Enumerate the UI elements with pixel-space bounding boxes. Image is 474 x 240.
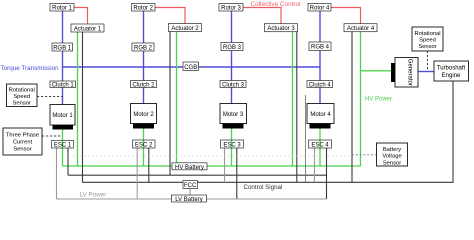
svg-text:Current: Current <box>13 140 33 146</box>
svg-text:Speed: Speed <box>13 94 30 100</box>
wire esc1 hv <box>62 130 64 167</box>
wire actuator1 control <box>82 32 84 182</box>
motor M2 <box>131 104 157 129</box>
wire actuator3 control <box>296 31 298 182</box>
svg-text:HV Battery: HV Battery <box>175 165 204 171</box>
svg-text:Actuator 2: Actuator 2 <box>171 26 199 32</box>
wire rotational speed sensor dashed <box>37 96 63 98</box>
wire collective control rotor2 <box>155 8 186 24</box>
svg-text:Torque Transmission: Torque Transmission <box>1 65 60 72</box>
wire fcc control line <box>83 81 454 182</box>
battery HV <box>172 163 207 171</box>
esc E2 <box>133 140 156 148</box>
svg-text:Sensor: Sensor <box>383 160 401 166</box>
gearbox RGB4 <box>309 42 331 51</box>
wire rotor4 shaft <box>319 11 321 104</box>
svg-text:RGB 1: RGB 1 <box>53 46 72 52</box>
svg-text:FCC: FCC <box>184 183 197 189</box>
svg-text:Rotor 3: Rotor 3 <box>221 6 241 12</box>
wire actuator4 hv <box>360 31 362 166</box>
wire collective control rotor1 <box>74 8 88 25</box>
rotor R3 <box>219 4 243 12</box>
wire actuator3 hv <box>292 31 294 166</box>
svg-text:ESC 1: ESC 1 <box>54 143 72 149</box>
wire battery voltage sensor dashed <box>68 155 352 157</box>
svg-text:ESC 2: ESC 2 <box>135 142 153 148</box>
svg-text:Engine: Engine <box>442 73 461 79</box>
wire esc3 control <box>236 148 238 199</box>
svg-text:ESC 3: ESC 3 <box>223 142 241 148</box>
svg-text:Rotor 2: Rotor 2 <box>133 6 153 12</box>
wire esc4 control <box>326 148 328 199</box>
svg-text:Actuator 4: Actuator 4 <box>347 26 375 32</box>
actuator A2 <box>169 24 202 32</box>
wire hv generator link <box>361 70 392 72</box>
svg-text:Motor 3: Motor 3 <box>223 112 244 118</box>
wire fcc to lv battery <box>189 189 191 196</box>
wire rotor3 shaft <box>231 11 233 104</box>
svg-text:Three Phase: Three Phase <box>6 133 39 139</box>
actuator A1 <box>71 24 104 32</box>
svg-text:CGB: CGB <box>184 65 197 71</box>
svg-text:Speed: Speed <box>419 38 436 44</box>
svg-text:Rotor 4: Rotor 4 <box>310 6 330 12</box>
engine turboshaft <box>434 61 469 81</box>
wire esc1 control <box>67 148 69 175</box>
motor M4 <box>307 104 334 129</box>
esc E3 <box>221 140 244 148</box>
wire lv battery line <box>57 198 327 200</box>
rotor R1 <box>50 4 74 12</box>
wire esc3 hv <box>231 129 233 167</box>
wire lv esc1 <box>56 148 58 199</box>
battery LV <box>172 195 207 203</box>
wire collective control rotor4 <box>331 8 361 24</box>
svg-text:Motor 1: Motor 1 <box>52 113 73 119</box>
wire torque transmission bus <box>63 66 321 68</box>
wire three phase sensor dashed <box>42 135 62 137</box>
svg-text:Voltage: Voltage <box>382 154 401 160</box>
svg-text:RGB 3: RGB 3 <box>223 45 242 51</box>
gearbox RGB1 <box>52 43 73 52</box>
clutch C3 <box>220 81 246 89</box>
wire control bus <box>68 174 327 176</box>
svg-text:ESC 4: ESC 4 <box>311 142 329 148</box>
gearbox RGB3 <box>221 43 243 52</box>
svg-text:Sensor: Sensor <box>13 147 31 153</box>
svg-text:Sensor: Sensor <box>13 101 31 107</box>
wire lv esc4 <box>314 148 316 182</box>
svg-text:Motor 2: Motor 2 <box>133 112 154 118</box>
svg-text:Generator: Generator <box>407 59 413 86</box>
svg-text:Clutch 4: Clutch 4 <box>309 82 332 88</box>
svg-text:Motor 4: Motor 4 <box>310 112 331 118</box>
svg-text:Sensor: Sensor <box>418 44 436 50</box>
wire esc4 hv <box>319 129 321 167</box>
wire hv power bus <box>63 165 361 167</box>
svg-text:Rotational: Rotational <box>414 31 440 37</box>
svg-text:Rotor 1: Rotor 1 <box>52 6 72 12</box>
wire clutch4 control <box>304 95 306 182</box>
computer FCC <box>183 181 198 190</box>
svg-text:Clutch 3: Clutch 3 <box>222 82 245 88</box>
rotor R4 <box>308 4 331 12</box>
wire actuator1 hv <box>77 32 79 166</box>
wire lv esc3 <box>224 148 226 182</box>
svg-text:Battery: Battery <box>383 147 401 153</box>
svg-text:RGB 2: RGB 2 <box>134 46 153 52</box>
wire esc2 control <box>148 148 150 182</box>
wire generator turbine shaft <box>418 71 434 73</box>
generator U1 <box>391 58 418 88</box>
esc E1 <box>52 141 74 149</box>
wire collective control rotor3 <box>243 8 281 24</box>
sensor rotational speed right <box>412 27 443 51</box>
sensor battery voltage <box>377 143 408 166</box>
wire esc2 hv <box>143 129 145 167</box>
wire actuator2 hv <box>176 32 178 163</box>
clutch C4 <box>307 81 333 89</box>
actuator A3 <box>265 24 298 32</box>
wire actuator4 control <box>351 31 353 182</box>
svg-text:HV Power: HV Power <box>365 96 392 102</box>
motor M1 <box>50 105 75 130</box>
gearbox CGB <box>183 62 199 71</box>
wire engine speed sensor dashed <box>427 51 429 72</box>
wire lv esc2 <box>136 148 138 199</box>
svg-text:LV Power: LV Power <box>80 191 107 198</box>
svg-text:Clutch 2: Clutch 2 <box>132 82 155 88</box>
svg-text:Rotational: Rotational <box>9 88 35 94</box>
svg-text:RGB 4: RGB 4 <box>311 45 330 51</box>
svg-text:Actuator 3: Actuator 3 <box>267 26 295 32</box>
motor M3 <box>220 104 247 129</box>
svg-text:Clutch 1: Clutch 1 <box>52 83 75 89</box>
gearbox RGB2 <box>132 43 154 52</box>
wire actuator2 control <box>169 32 171 176</box>
svg-text:LV Battery: LV Battery <box>175 197 203 203</box>
svg-text:Collective Control: Collective Control <box>250 1 300 8</box>
svg-text:Control Signal: Control Signal <box>244 184 283 191</box>
esc E4 <box>309 140 332 148</box>
actuator A4 <box>344 24 377 32</box>
sensor rotational speed left <box>7 84 38 107</box>
sensor three phase current <box>3 128 42 155</box>
svg-text:Actuator 1: Actuator 1 <box>74 26 102 32</box>
wire rotor1 shaft <box>62 11 64 105</box>
rotor R2 <box>132 4 156 12</box>
clutch C2 <box>131 81 157 89</box>
wire rotor2 shaft <box>143 11 145 104</box>
clutch C1 <box>50 81 76 89</box>
svg-text:Turboshaft: Turboshaft <box>437 66 466 72</box>
